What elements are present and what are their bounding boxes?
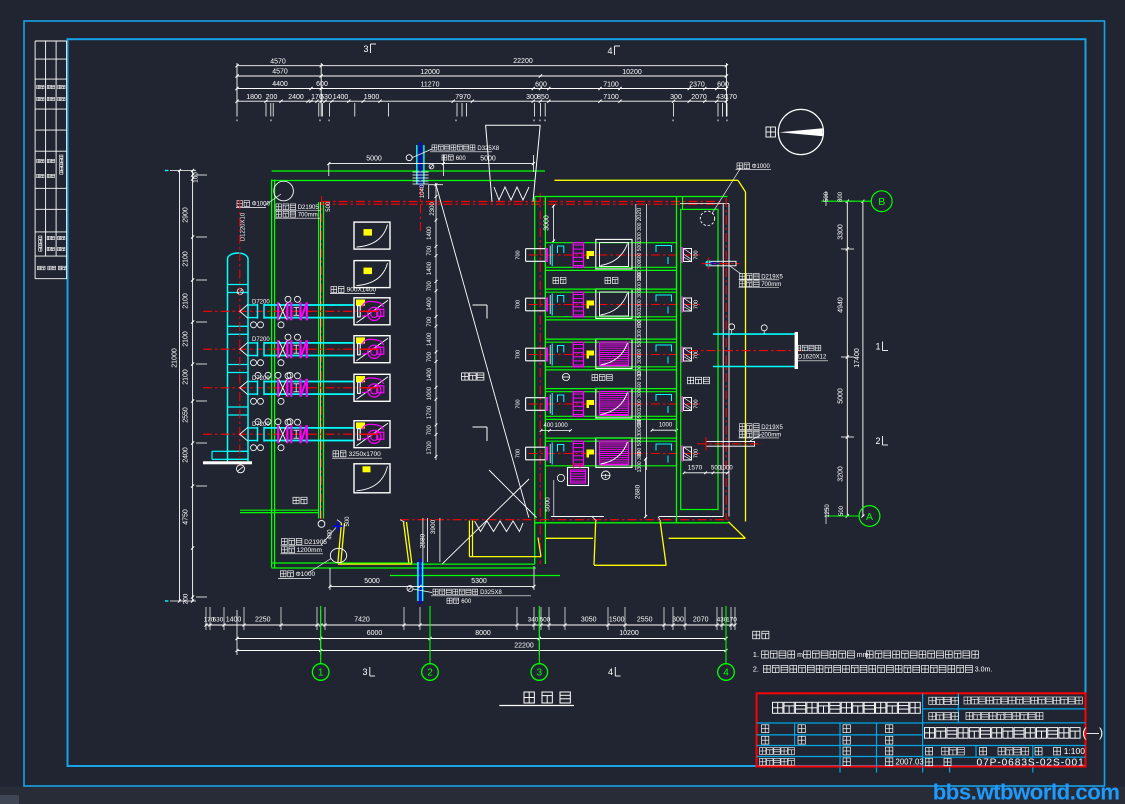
channel 1 inlet gate magenta	[546, 248, 548, 262]
flange pair row 4	[290, 425, 292, 443]
channel 2 yellow marker	[587, 301, 595, 309]
pump box 1 diagonal	[357, 225, 388, 248]
channel dim text column	[635, 204, 637, 470]
svg-text:1900: 1900	[364, 94, 380, 101]
flange pair row 3	[290, 379, 292, 397]
svg-text:700: 700	[694, 300, 700, 309]
svg-text:2100: 2100	[183, 369, 190, 385]
pump box 7	[354, 464, 390, 493]
channel 1 cyan guides	[551, 244, 553, 266]
dim 3900 vertical	[439, 518, 441, 562]
channel 3 screen rake ladder	[573, 342, 583, 367]
fitting balloons row 2	[251, 360, 257, 366]
inlet pipe valve circle	[406, 155, 412, 161]
title block cyan grid	[922, 693, 924, 766]
channel 3 suction scoop	[525, 348, 527, 361]
pump box 3 diagonal	[357, 300, 389, 323]
svg-text:600: 600	[717, 81, 729, 88]
svg-text:D325X8: D325X8	[480, 590, 502, 596]
channel 3 right cyan bracket	[656, 345, 672, 352]
left outlet white corners	[337, 520, 342, 523]
svg-text:1500: 1500	[609, 617, 625, 624]
pump 2 volute	[362, 339, 384, 345]
pump suction pipe row 3 red centerline	[203, 387, 379, 389]
channel 2 screen rake ladder	[573, 292, 583, 317]
svg-text:m: m	[797, 652, 803, 659]
valve spool row 4	[294, 429, 300, 431]
check valve row 3	[299, 379, 301, 397]
svg-text:800: 800	[838, 191, 844, 202]
check valve row 1	[299, 302, 301, 320]
pump box 4 yellow tag	[356, 337, 365, 343]
pump 3 red line	[360, 387, 379, 389]
channel 5 suction scoop	[525, 447, 527, 460]
svg-text:600 500: 600 500	[637, 339, 643, 357]
fitting balloons row 1	[251, 322, 257, 328]
svg-text:700mm: 700mm	[298, 212, 318, 218]
right tank inner green rect	[681, 209, 718, 509]
north arrow circle	[778, 109, 823, 154]
screen room bottom wall	[551, 516, 604, 518]
svg-text:2070: 2070	[693, 617, 709, 624]
svg-text:D21905: D21905	[298, 205, 320, 211]
svg-text:17400: 17400	[854, 348, 861, 368]
top dimension ticks	[235, 64, 238, 67]
dim 1040 2300 drop	[428, 185, 430, 200]
svg-text:1400: 1400	[427, 226, 433, 240]
top dimension lines	[237, 65, 726, 67]
channel 4 cyan guides	[551, 393, 553, 415]
svg-text:2550: 2550	[637, 617, 653, 624]
wall sleeve hatches	[413, 171, 429, 173]
svg-text:1300 300: 1300 300	[637, 319, 643, 340]
pump suction pipe row 2 flange	[257, 342, 259, 357]
svg-text:2400: 2400	[183, 447, 190, 463]
pump house top wall	[272, 170, 545, 172]
svg-text:bbs.wtbworld.com: bbs.wtbworld.com	[933, 780, 1120, 804]
svg-text:22200: 22200	[514, 642, 534, 649]
channel 3 screen frame	[596, 339, 632, 369]
pump suction pipe row 3 cyan pipe	[248, 381, 258, 383]
channel 2 outlet gate	[681, 297, 683, 313]
right total dim 17400	[862, 201, 864, 516]
channel 4 right cyan bracket	[656, 395, 672, 402]
pump suction pipe row 1 flange	[257, 304, 259, 319]
svg-text:D7200: D7200	[252, 337, 270, 343]
svg-text:630: 630	[213, 617, 224, 624]
pump box 6 yellow tag	[356, 422, 365, 428]
pump box 4 diagonal	[357, 338, 389, 361]
pump box 3 yellow tag	[356, 300, 365, 306]
svg-text:500: 500	[824, 191, 830, 202]
pump box 5 diagonal	[357, 377, 389, 400]
svg-text:3050: 3050	[581, 617, 597, 624]
svg-text:2680: 2680	[635, 484, 642, 499]
pump 4 volute	[362, 424, 384, 430]
inlet pipe D325 blue core	[419, 143, 421, 188]
svg-text:4750: 4750	[183, 509, 190, 525]
svg-text:3250x1700: 3250x1700	[349, 451, 382, 458]
valve spool row 1	[294, 306, 300, 308]
left dimension chain ticks	[191, 169, 194, 172]
channel 5 yellow marker	[587, 450, 595, 458]
stage cell	[926, 747, 933, 755]
svg-text:340: 340	[528, 617, 539, 624]
valve circle near cross	[318, 521, 325, 528]
dim 2580 vertical	[422, 518, 424, 562]
svg-text:12000: 12000	[420, 69, 440, 76]
screen channel 3 centerline	[529, 354, 701, 356]
section bubble 1	[601, 471, 610, 480]
svg-text:1040: 1040	[420, 184, 426, 198]
svg-text:700: 700	[516, 350, 522, 359]
svg-text:500: 500	[345, 516, 351, 527]
svg-text:5000: 5000	[366, 155, 382, 162]
column marker bracket 1	[473, 304, 488, 306]
svg-text:1400: 1400	[226, 617, 242, 624]
svg-text:4940: 4940	[838, 297, 845, 313]
right tank outer wall white	[722, 204, 724, 517]
channel 3 outlet gate	[681, 347, 683, 363]
svg-text:1200mm: 1200mm	[297, 547, 322, 554]
divider gap3 labels	[562, 373, 569, 380]
outlet channel 2 yellow sides	[594, 521, 596, 565]
screen channel 2 centerline	[529, 304, 701, 306]
inlet pipe D325 cyan	[416, 145, 418, 185]
signature row 1	[762, 725, 769, 733]
channel 4 screen frame	[596, 388, 632, 418]
svg-text:2580: 2580	[420, 533, 427, 548]
svg-text:2100: 2100	[183, 331, 190, 347]
svg-text:7970: 7970	[455, 94, 471, 101]
pump suction pipe row 4 red centerline	[203, 433, 379, 435]
svg-text:700: 700	[427, 245, 433, 256]
svg-text:10200: 10200	[619, 630, 639, 637]
pump 4 flange white	[358, 429, 361, 440]
pump 2 flange white	[358, 344, 361, 355]
svg-text:170: 170	[725, 94, 737, 101]
svg-text:700mm: 700mm	[761, 282, 781, 288]
right tank manhole circle	[700, 211, 714, 225]
svg-text:1700: 1700	[427, 441, 433, 455]
inlet pipe label leader	[412, 149, 432, 158]
sump 1 cyan plug	[705, 260, 711, 266]
svg-text:10200: 10200	[622, 69, 642, 76]
header base plate	[203, 461, 252, 464]
taskbar square bottom-left	[0, 795, 19, 804]
screen channel 3 walls	[545, 341, 676, 343]
svg-text:600: 600	[456, 156, 467, 162]
interior wall B	[318, 202, 320, 519]
funnel expansion joint zigzag	[494, 187, 529, 200]
svg-text:D325X8: D325X8	[477, 146, 499, 152]
channel 2 right cyan bracket	[656, 295, 672, 302]
channel 5 screen frame	[596, 438, 632, 468]
pump 3 flange white	[358, 382, 361, 393]
svg-text:3.0m.: 3.0m.	[975, 667, 993, 674]
svg-text:21000: 21000	[172, 348, 179, 368]
blue cross marker	[333, 525, 343, 527]
project name label	[929, 697, 936, 704]
pump suction pipe row 4 cyan pipe	[248, 427, 258, 429]
svg-text:2400: 2400	[288, 94, 304, 101]
channel 1 yellow marker	[587, 251, 595, 259]
svg-text:7100: 7100	[603, 81, 619, 88]
svg-text:700: 700	[427, 351, 433, 362]
svg-text:2300: 2300	[430, 202, 436, 216]
svg-text:600: 600	[535, 81, 547, 88]
channel 4 inlet gate magenta	[546, 397, 548, 411]
svg-text:4: 4	[607, 46, 612, 56]
svg-text:2: 2	[427, 668, 433, 679]
svg-text:300: 300	[672, 617, 684, 624]
svg-text:1000: 1000	[659, 422, 673, 428]
svg-text:2370: 2370	[689, 81, 705, 88]
channel 5 outlet gate	[681, 446, 683, 462]
flange pair row 2	[290, 340, 292, 358]
svg-text:600: 600	[316, 81, 328, 88]
axis B circle	[821, 200, 871, 202]
channel 1 outlet gate	[681, 247, 683, 263]
valve spool row 2	[294, 344, 300, 346]
header side stubs	[212, 450, 228, 452]
channel 2 cyan guides	[551, 294, 553, 316]
yellow boundary top	[555, 179, 739, 181]
svg-text:4570: 4570	[272, 69, 288, 76]
channel 5 screen rake ladder	[573, 441, 583, 466]
svg-text:5300: 5300	[471, 578, 487, 585]
outfall pipe bottom blue	[417, 562, 419, 601]
fitting balloons row 4	[251, 445, 257, 451]
svg-text:D219X5: D219X5	[761, 425, 783, 431]
pump box 6 diagonal	[357, 423, 389, 446]
pump house left wall	[271, 180, 273, 568]
channel 4 outlet gate	[681, 396, 683, 412]
svg-text:7420: 7420	[354, 617, 370, 624]
check valve row 4	[299, 425, 301, 443]
svg-text:1700: 1700	[427, 405, 433, 419]
svg-text:1400: 1400	[427, 261, 433, 275]
svg-text:1: 1	[875, 342, 880, 352]
manhole bottom label	[280, 571, 286, 577]
valve spool row 3	[294, 383, 300, 385]
svg-text:850: 850	[537, 94, 549, 101]
north arrow wedge	[779, 128, 823, 136]
svg-text:3000: 3000	[544, 215, 551, 231]
channel 4 suction scoop	[525, 398, 527, 411]
svg-text:D7200: D7200	[252, 376, 270, 382]
funnel 5000 dim	[329, 163, 534, 165]
screen channel 1 centerline	[529, 254, 701, 256]
svg-text:1300 300: 1300 300	[637, 451, 643, 472]
svg-text:5000: 5000	[364, 578, 380, 585]
top dimension extension lines	[236, 63, 238, 117]
bottom 5000 5300 dim	[330, 585, 534, 587]
svg-text:A: A	[866, 511, 873, 523]
right tank left wall green	[676, 197, 678, 523]
left total dimension line 21000	[179, 171, 181, 602]
svg-text:8000: 8000	[475, 630, 491, 637]
pump 1 red line	[360, 310, 379, 312]
bottom dim row3 line	[237, 650, 726, 652]
svg-text:1300 300: 1300 300	[637, 222, 643, 243]
header centerline red	[239, 252, 241, 466]
suction header pipe	[227, 259, 229, 461]
extra balloons rows 3-4 top	[255, 372, 261, 378]
channel 2 screen frame	[596, 289, 632, 319]
svg-text:3: 3	[362, 667, 367, 677]
svg-text:Φ1000: Φ1000	[296, 571, 316, 578]
svg-text:2070: 2070	[691, 94, 707, 101]
svg-text:1400: 1400	[427, 367, 433, 381]
subproject label	[929, 713, 936, 720]
channel 3 yellow marker	[587, 351, 595, 359]
pump suction pipe row 4 reducer	[240, 427, 248, 441]
svg-text:630: 630	[320, 94, 332, 101]
left dimension extension stubs	[196, 174, 207, 176]
outfall pipe label	[796, 345, 801, 351]
pump suction pipe row 4 flange	[257, 427, 259, 442]
svg-text:2900: 2900	[183, 207, 190, 223]
screen channel 4 centerline	[529, 403, 701, 405]
svg-text:2100: 2100	[183, 251, 190, 267]
svg-text:4: 4	[608, 667, 613, 677]
drawing big title	[925, 728, 935, 739]
inlet centerline red below wall	[420, 187, 422, 232]
svg-text:22200: 22200	[513, 58, 533, 65]
pump box 7 yellow tag	[363, 466, 371, 472]
svg-text:700: 700	[694, 350, 700, 359]
svg-text:D7200: D7200	[252, 299, 270, 305]
pump 2 red line	[360, 348, 379, 350]
svg-text:300: 300	[670, 94, 682, 101]
channel divider boxes	[545, 269, 676, 271]
bottom dim row1 line	[205, 624, 735, 626]
right dim chain line	[846, 201, 848, 516]
pump 1 flange white	[358, 306, 361, 317]
svg-text:700: 700	[694, 250, 700, 259]
svg-text:D1220X10: D1220X10	[241, 212, 247, 241]
project name value	[964, 697, 971, 704]
sump 1 blue core	[710, 262, 719, 264]
svg-text:11270: 11270	[421, 81, 440, 88]
pump box 5	[354, 374, 390, 401]
channel 2 suction scoop	[525, 298, 527, 311]
svg-text:6000: 6000	[367, 630, 383, 637]
svg-text:2550: 2550	[183, 407, 190, 423]
svg-text:1300 300: 1300 300	[637, 289, 643, 310]
svg-text:600 500: 600 500	[637, 243, 643, 261]
right tank top white edge	[680, 203, 729, 205]
right tank wall red centerline	[725, 198, 727, 520]
fitting balloons row 3	[251, 398, 257, 404]
dim 3000 vertical	[553, 205, 555, 242]
suction hall diagonal brace 2	[442, 479, 529, 564]
pump box 1	[354, 222, 390, 249]
pump 4 red line	[360, 433, 379, 435]
gate valve row 3	[277, 379, 279, 397]
svg-text:700: 700	[516, 300, 522, 309]
screen channel 5 walls	[545, 440, 676, 442]
svg-text:600: 600	[461, 599, 472, 605]
bottom dim row2 line	[237, 638, 726, 640]
pump suction pipe row 2 cyan pipe	[248, 342, 258, 344]
channel 3 inlet gate magenta	[546, 348, 548, 362]
top wall red centerlines	[321, 201, 723, 203]
outlet channel 1 yellow sides	[338, 523, 342, 563]
flange pair row 1	[290, 302, 292, 320]
drawing number row	[926, 758, 933, 766]
svg-text:700: 700	[427, 281, 433, 292]
screen channel 4 walls	[545, 391, 676, 393]
pump box 5 yellow tag	[356, 376, 365, 382]
pump suction pipe row 2 red centerline	[203, 348, 379, 350]
signature row 2	[762, 736, 769, 744]
title block cyan stubs below	[839, 768, 841, 773]
svg-text:1: 1	[318, 668, 324, 679]
check valve row 2	[299, 340, 301, 358]
channel 4 yellow marker	[587, 400, 595, 408]
suction hall diagonal brace 1	[436, 183, 529, 518]
svg-text:3: 3	[363, 44, 368, 54]
channel 5 right cyan bracket	[656, 444, 672, 451]
pump 3 volute	[362, 378, 384, 384]
pump box 1 yellow tag	[364, 229, 373, 236]
svg-text:B: B	[878, 196, 885, 208]
gate valve row 2	[277, 340, 279, 358]
channel dim chain line	[435, 185, 437, 460]
bottom bar	[0, 787, 1125, 804]
svg-text:2100: 2100	[183, 293, 190, 309]
discipline manager row	[760, 758, 766, 765]
manhole top circle	[274, 181, 294, 201]
svg-text:4: 4	[723, 668, 729, 679]
svg-text:700: 700	[694, 449, 700, 458]
legend table grid	[35, 40, 67, 42]
suction hall diagonal brace 3	[489, 470, 537, 518]
svg-text:1800: 1800	[246, 94, 262, 101]
svg-text:2250: 2250	[255, 617, 271, 624]
channel 5 inlet gate magenta	[546, 447, 548, 461]
svg-text:5000: 5000	[480, 155, 496, 162]
svg-text:600 500: 600 500	[637, 372, 643, 390]
pump suction pipe row 1 cyan pipe	[248, 304, 258, 306]
header top labels	[237, 201, 242, 207]
svg-text:5000: 5000	[838, 388, 845, 404]
channel 2 inlet gate magenta	[546, 298, 548, 312]
svg-text:1400: 1400	[427, 297, 433, 311]
outfall bottom label	[413, 589, 432, 593]
yellow inner pit below pump hall	[468, 521, 470, 557]
channel 4 screen rake ladder	[573, 392, 583, 417]
svg-text:2: 2	[875, 436, 880, 446]
pump size label	[333, 451, 339, 457]
svg-text:1570: 1570	[688, 464, 703, 471]
svg-text:700: 700	[516, 250, 522, 259]
svg-text:Φ1000: Φ1000	[252, 202, 271, 208]
svg-text:3900: 3900	[430, 519, 437, 534]
channel 1 screen frame	[596, 239, 632, 269]
pump suction pipe row 3 flange	[257, 380, 259, 395]
svg-text:200: 200	[183, 593, 190, 604]
suction chamber label	[462, 373, 469, 380]
svg-text:900X1400: 900X1400	[347, 287, 377, 294]
pump 1 volute	[362, 301, 384, 307]
channel dim chain ticks	[435, 183, 438, 186]
institute name	[773, 702, 783, 713]
gate valve row 1	[277, 302, 279, 320]
right tank label	[688, 377, 694, 384]
